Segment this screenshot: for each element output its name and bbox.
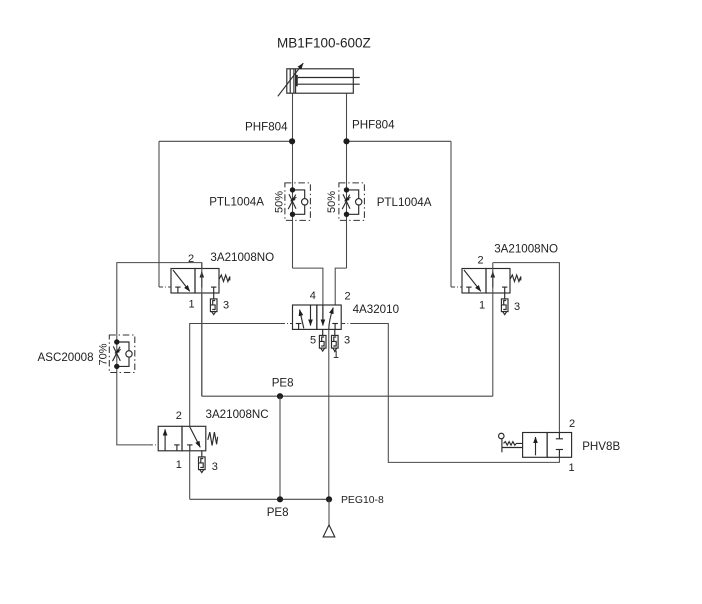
wire port4 jog into main valve xyxy=(293,268,323,322)
NC valve blocked port T middle xyxy=(187,445,192,451)
wire bottom manifold horizontal xyxy=(190,498,329,500)
PTL left check valve branch xyxy=(293,190,308,214)
svg-text:2: 2 xyxy=(477,255,483,267)
left NO valve blocked port T right xyxy=(211,287,216,293)
left NO valve blocked port T left xyxy=(175,287,180,293)
right NO valve blocked port T left xyxy=(466,287,471,293)
wire cylinder right port down xyxy=(346,93,348,268)
right NO valve flow diagonal xyxy=(464,270,481,291)
svg-text:1: 1 xyxy=(568,462,574,474)
wire pilot dash left NO valve xyxy=(159,286,171,288)
svg-text:3: 3 xyxy=(344,334,350,346)
wire main valve right pilot to PHV8B port1 xyxy=(352,324,560,463)
valve PHV8B : body xyxy=(523,433,572,458)
svg-text:50%: 50% xyxy=(274,191,286,213)
node PEG10-8 xyxy=(326,496,332,502)
left NO valve spring xyxy=(219,275,230,282)
left NO valve up arrow xyxy=(201,272,203,288)
PTL left node dots xyxy=(290,187,295,192)
svg-text:PHF804: PHF804 xyxy=(245,121,288,134)
valve 3A21008NO right : body xyxy=(462,269,521,315)
main valve left blocked T xyxy=(296,324,302,330)
svg-text:50%: 50% xyxy=(326,191,338,213)
svg-text:2: 2 xyxy=(176,410,182,422)
svg-text:3A21008NC: 3A21008NC xyxy=(206,408,269,421)
PHV8B up arrow xyxy=(535,437,537,455)
svg-text:4: 4 xyxy=(310,290,316,302)
wire main valve port1 down xyxy=(328,329,330,499)
wire pilot dash main valve left xyxy=(281,323,293,325)
svg-text:PHV8B: PHV8B xyxy=(582,440,620,453)
wire right NO valve port2 vertical through valve xyxy=(492,263,494,397)
svg-text:MB1F100-600Z: MB1F100-600Z xyxy=(277,35,371,50)
svg-text:1: 1 xyxy=(176,459,182,471)
PTL right throttle xyxy=(342,194,350,209)
svg-text:2: 2 xyxy=(345,290,351,302)
svg-text:2: 2 xyxy=(569,418,575,430)
svg-text:PEG10-8: PEG10-8 xyxy=(341,495,384,506)
PHV8B actuator spring zigzag xyxy=(504,442,523,446)
svg-text:2: 2 xyxy=(188,253,194,265)
exhaust triangle xyxy=(323,525,335,537)
PHV8B actuator rod xyxy=(502,447,523,449)
wire left trunk down xyxy=(158,141,160,287)
wire right NO valve port2 to PHV8B xyxy=(493,263,560,433)
svg-text:3: 3 xyxy=(212,461,218,473)
svg-text:70%: 70% xyxy=(97,343,109,365)
cylinder adjustment arrow xyxy=(278,63,303,96)
node PE8 top xyxy=(277,393,283,399)
NC valve flow diagonal xyxy=(190,427,201,448)
svg-text:ASC20008: ASC20008 xyxy=(38,351,94,364)
wire exhaust stub down xyxy=(328,499,330,525)
cylinder body xyxy=(287,69,354,93)
right NO valve up arrow xyxy=(492,272,494,288)
PTL right check valve branch xyxy=(347,190,362,214)
ASC node dots xyxy=(114,339,119,344)
svg-text:PE8: PE8 xyxy=(267,506,289,519)
right NO valve muffler port3 xyxy=(501,293,508,315)
wire pilot dash main valve right xyxy=(341,323,351,325)
wire PE8 horizontal xyxy=(202,395,493,397)
cylinder piston rod xyxy=(297,75,360,86)
flow control ASC20008 : dash-dot box xyxy=(109,335,135,373)
wire right trunk down xyxy=(450,141,452,287)
PTL right node dots xyxy=(344,187,349,192)
svg-text:PTL1004A: PTL1004A xyxy=(377,196,432,209)
svg-text:3: 3 xyxy=(514,301,520,313)
main valve right down arrow (port4 to 5) xyxy=(322,305,324,326)
wire through ASC down to NC pilot elbow xyxy=(117,335,149,445)
NC valve muffler port3 xyxy=(199,451,206,473)
node PHF804 left xyxy=(289,138,295,144)
wire left NO valve port1/port2 vertical through valve xyxy=(201,263,203,397)
flow control PTL1004A left : dash-dot box xyxy=(285,183,311,221)
wire port2 jog into main valve xyxy=(335,268,346,305)
wire cylinder left port down xyxy=(292,93,294,268)
wire top-right horizontal PHF804 xyxy=(347,140,452,142)
main valve muffler port3 xyxy=(332,329,339,351)
wire left NO port1 down to PE8 line xyxy=(201,293,203,396)
flow control PTL1004A right : dash-dot box xyxy=(339,183,365,221)
left NO valve flow diagonal xyxy=(173,270,190,291)
valve 3A21008NC : body xyxy=(158,426,217,472)
node PHF804 right xyxy=(343,138,349,144)
main valve curve arrow (1 to 2) xyxy=(329,308,333,330)
wire NC valve port1 down xyxy=(189,451,191,500)
svg-text:1: 1 xyxy=(189,299,195,311)
PHV8B actuator stick xyxy=(501,439,503,453)
wire main valve left pilot to NC valve port2 xyxy=(190,324,281,427)
svg-text:5: 5 xyxy=(310,335,316,347)
PHV8B port1 stub xyxy=(556,450,563,458)
ASC check valve branch xyxy=(117,342,132,366)
svg-text:4A32010: 4A32010 xyxy=(353,303,399,316)
NC valve blocked port T left xyxy=(174,445,179,451)
main valve muffler port5 xyxy=(319,329,326,351)
svg-text:3A21008NO: 3A21008NO xyxy=(210,251,274,264)
main valve right blocked T xyxy=(332,324,338,330)
wire left NO valve port2 up-left and down to ASC xyxy=(117,263,202,336)
wire pilot dash right NO valve xyxy=(451,286,462,288)
right NO valve spring xyxy=(510,275,521,282)
wire PE8 down xyxy=(279,396,281,499)
svg-text:3: 3 xyxy=(223,299,229,311)
svg-text:PHF804: PHF804 xyxy=(352,118,395,131)
main valve left diag arrow xyxy=(300,310,304,329)
PTL left throttle xyxy=(288,194,296,209)
valve 3A21008NO left : body xyxy=(171,269,230,315)
svg-text:PE8: PE8 xyxy=(272,376,294,389)
svg-text:1: 1 xyxy=(333,349,339,361)
left NO valve muffler port3 xyxy=(210,293,217,315)
svg-text:PTL1004A: PTL1004A xyxy=(209,196,264,209)
ASC throttle xyxy=(113,346,121,361)
valve 4A32010 main : body xyxy=(293,305,342,329)
main valve left down arrow xyxy=(310,305,312,326)
right NO valve blocked port T right xyxy=(502,287,507,293)
node PE8 bottom xyxy=(277,496,283,502)
svg-text:1: 1 xyxy=(479,300,485,312)
svg-text:3A21008NO: 3A21008NO xyxy=(494,243,558,256)
PHV8B manual actuator knob xyxy=(499,433,505,439)
NC valve up arrow xyxy=(164,429,166,451)
PHV8B port2 stub xyxy=(556,433,563,439)
wire pilot dash NC valve xyxy=(149,444,158,446)
wire top-left horizontal PHF804 xyxy=(159,140,293,142)
NC valve spring xyxy=(208,432,218,445)
